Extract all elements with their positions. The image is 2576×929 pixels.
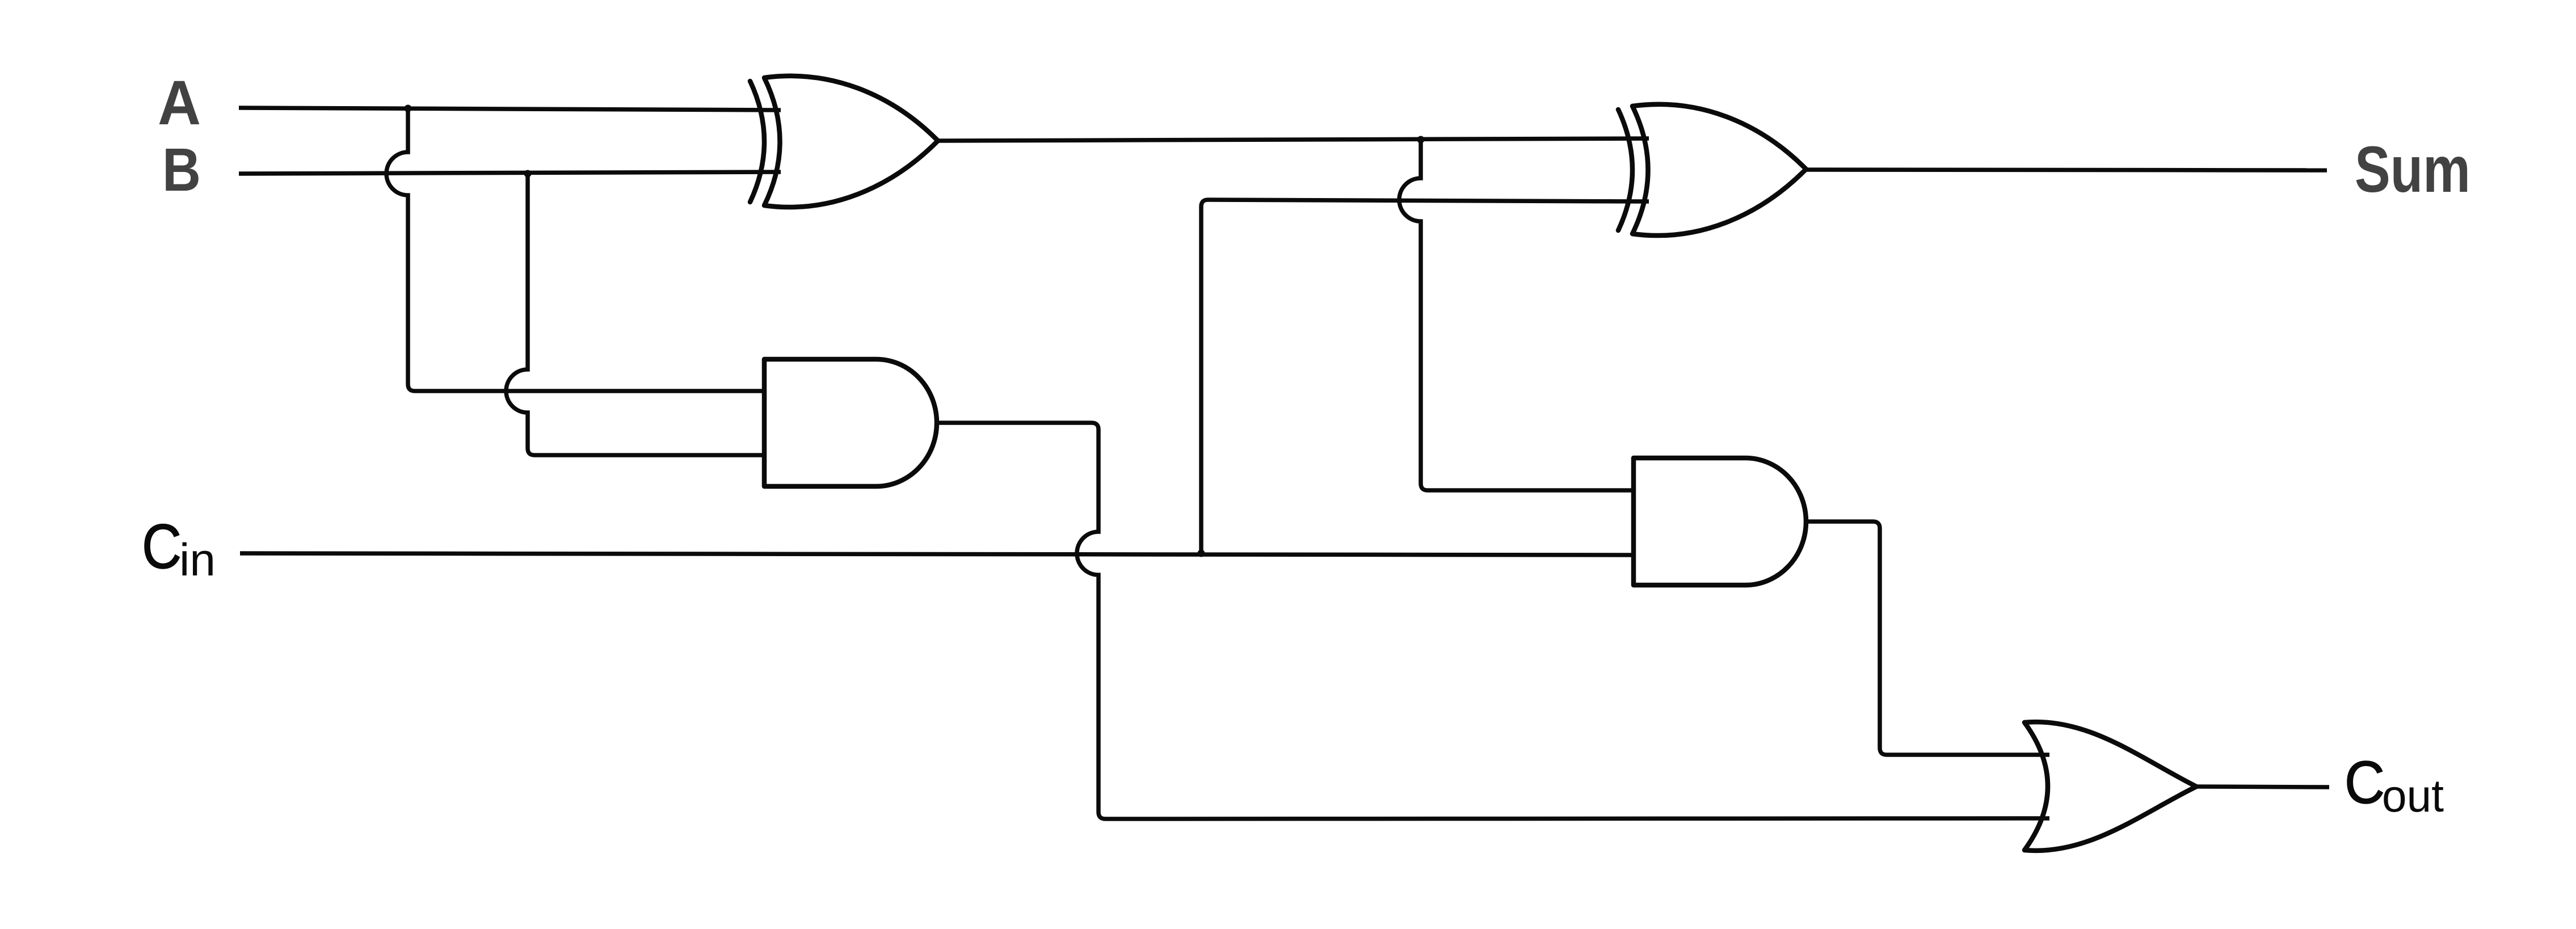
node junction dot on A wire <box>405 105 412 112</box>
svg-text:A: A <box>158 68 201 138</box>
wire AND2 output horizontal <box>1807 522 2049 755</box>
gate XOR1 (A xor B) <box>750 76 938 207</box>
gate AND1 (A and B) <box>764 359 937 486</box>
svg-text:B: B <box>162 135 201 204</box>
wire Cin branch vertical up <box>1201 200 1649 553</box>
wire input B horizontal <box>239 172 781 174</box>
wire XOR1 output to XOR2 input 1 <box>938 138 1649 141</box>
svg-text:out: out <box>2382 771 2444 822</box>
svg-text:C: C <box>2345 749 2385 816</box>
wire Cin horizontal to AND2 input 2 <box>240 553 1636 555</box>
svg-text:C: C <box>142 512 182 582</box>
node junction dot on B wire <box>524 170 532 178</box>
node junction dot on XOR1 output wire <box>1417 136 1425 144</box>
wire A branch vertical with hop over B <box>386 108 767 391</box>
wire B branch vertical with hop over A-branch <box>506 174 767 455</box>
gate XOR2 (Sum) <box>1618 104 1806 236</box>
gate AND2 <box>1634 458 1806 585</box>
wire AND1 output horizontal <box>937 423 2049 819</box>
wire XOR1-output branch vertical with hop over Cin-up branch <box>1399 140 1636 490</box>
wire input A horizontal <box>239 108 781 110</box>
wire Sum output <box>1805 170 2327 170</box>
svg-text:in: in <box>179 535 216 586</box>
node junction dot on Cin wire <box>1198 550 1205 557</box>
svg-text:Sum: Sum <box>2355 133 2470 206</box>
wire Cout output <box>2198 787 2329 787</box>
gate OR (Cout) <box>2024 722 2196 851</box>
